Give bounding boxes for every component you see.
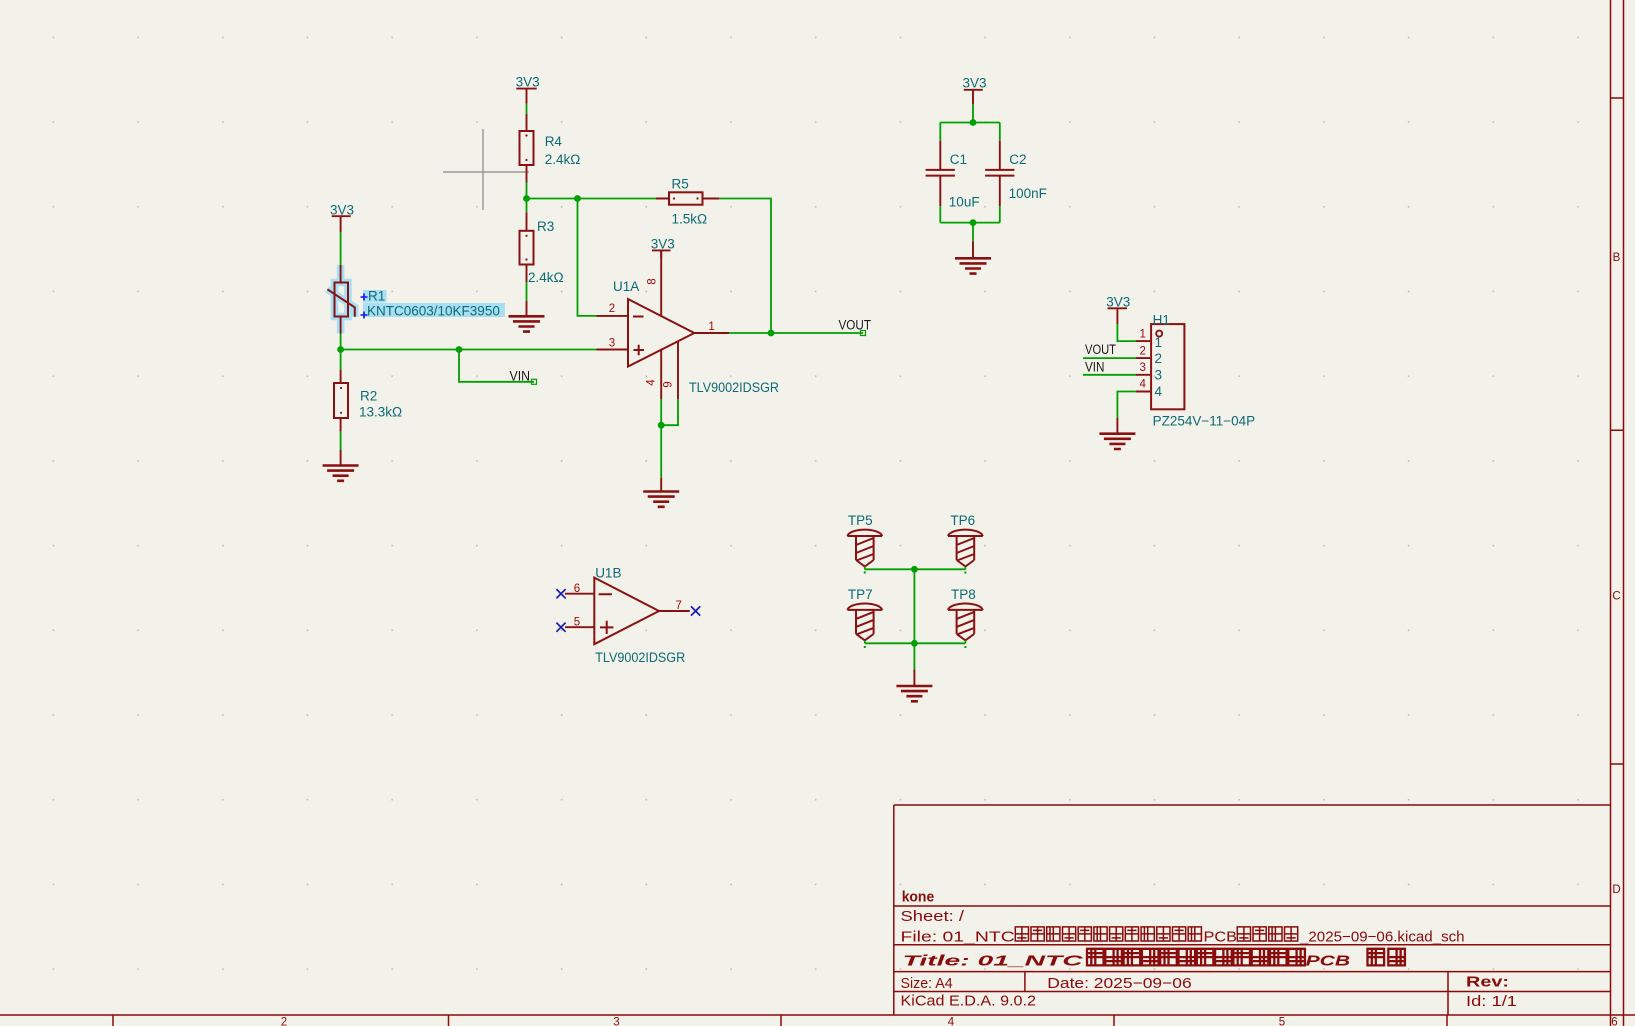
wire noninverting net: [341, 349, 597, 351]
svg-text:6: 6: [1611, 1017, 1617, 1026]
ground (below TP): [896, 669, 932, 701]
svg-text:9: 9: [663, 381, 675, 387]
svg-text:5: 5: [574, 617, 580, 629]
svg-text:13.3kΩ: 13.3kΩ: [359, 404, 402, 419]
svg-text:7: 7: [675, 600, 681, 612]
svg-text:_2025−09−06.kicad_sch: _2025−09−06.kicad_sch: [1299, 929, 1465, 946]
svg-text:3V3: 3V3: [651, 236, 675, 251]
thermistor R1 (selected, highlighted): [327, 265, 505, 334]
svg-text:R2: R2: [360, 388, 377, 403]
svg-text:C1: C1: [950, 152, 967, 167]
svg-text:3V3: 3V3: [516, 75, 540, 90]
svg-text:KNTC0603/10KF3950: KNTC0603/10KF3950: [367, 303, 500, 318]
svg-text:U1B: U1B: [595, 565, 621, 580]
svg-text:PCB: PCB: [1306, 953, 1351, 970]
wire R5 to output node: [719, 199, 771, 334]
capacitor C2: [985, 123, 1047, 207]
svg-text:Id: 1/1: Id: 1/1: [1466, 993, 1517, 1010]
junction: [523, 195, 530, 202]
svg-text:TP8: TP8: [951, 587, 976, 602]
sheet border right: [1611, 0, 1624, 1026]
wire TP bottom rail: [865, 642, 966, 644]
power 3V3 (above R4): [516, 75, 540, 104]
connector H1: [1136, 312, 1255, 428]
svg-text:TP6: TP6: [950, 513, 975, 528]
svg-text:TP7: TP7: [848, 587, 873, 602]
resistor R4: [520, 114, 581, 183]
title field cjk glyphs run 2: [1368, 949, 1405, 966]
wire inverting feedback: [578, 199, 597, 316]
svg-text:1.5kΩ: 1.5kΩ: [672, 211, 708, 226]
wire VOUT to H1 pin 2: [1083, 357, 1136, 359]
resistor R2: [334, 370, 402, 432]
svg-text:VOUT: VOUT: [839, 318, 872, 333]
wire TP rail to ground: [913, 643, 915, 669]
wire 3V3 to H1 pin 1: [1117, 324, 1136, 341]
junction: [658, 422, 665, 429]
wire 3V3 to R4: [526, 104, 528, 114]
wire R2 to ground: [340, 432, 342, 450]
svg-text:3V3: 3V3: [330, 202, 354, 217]
svg-text:100nF: 100nF: [1009, 186, 1047, 201]
wire TP rail vertical: [913, 569, 915, 643]
op-amp U1B: [565, 565, 690, 665]
wire R3 to ground: [526, 282, 528, 301]
svg-text:VOUT: VOUT: [1085, 342, 1116, 357]
svg-text:2: 2: [1155, 351, 1163, 366]
svg-text:PCB: PCB: [1204, 929, 1238, 946]
test point TP6: [948, 513, 983, 569]
junction: [768, 330, 775, 337]
sheet border bottom: [0, 1015, 1635, 1026]
svg-text:Date: 2025−09−06: Date: 2025−09−06: [1047, 975, 1191, 992]
svg-text:kone: kone: [902, 889, 935, 906]
ground (below U1A): [643, 478, 679, 507]
svg-text:B: B: [1613, 252, 1621, 264]
svg-text:2.4kΩ: 2.4kΩ: [545, 152, 581, 167]
ground (below caps): [955, 241, 991, 273]
svg-text:2: 2: [609, 303, 615, 315]
label VOUT (H1): [1085, 342, 1116, 357]
svg-text:3: 3: [613, 1017, 619, 1026]
svg-text:C: C: [1612, 591, 1620, 603]
title block frame: [894, 805, 1611, 1015]
junction: [970, 219, 977, 226]
svg-text:Title: 01_NTC: Title: 01_NTC: [903, 953, 1085, 970]
svg-text:C2: C2: [1009, 152, 1026, 167]
test point TP7: [847, 587, 882, 643]
no-connect X (U1B pin 5): [556, 623, 565, 632]
junction: [574, 195, 581, 202]
svg-text:2: 2: [1139, 345, 1145, 357]
svg-text:File: 01_NTC: File: 01_NTC: [901, 929, 1015, 946]
svg-text:KiCad E.D.A. 9.0.2: KiCad E.D.A. 9.0.2: [901, 993, 1037, 1010]
svg-text:TP5: TP5: [848, 513, 873, 528]
svg-text:R5: R5: [672, 177, 689, 192]
svg-text:2.4kΩ: 2.4kΩ: [528, 270, 564, 285]
svg-text:4: 4: [1155, 384, 1163, 399]
wire VIN to H1 pin 3: [1083, 374, 1136, 376]
ground (below R3): [509, 301, 545, 332]
svg-text:2: 2: [281, 1017, 287, 1026]
svg-text:R1: R1: [368, 289, 385, 304]
svg-text:4: 4: [1139, 379, 1146, 391]
power 3V3 (above C1 C2): [963, 75, 987, 104]
test point TP8: [948, 587, 983, 643]
svg-text:3: 3: [609, 338, 615, 350]
wire R4 to junction: [526, 183, 528, 213]
svg-text:Rev:: Rev:: [1466, 974, 1509, 991]
svg-text:4: 4: [646, 379, 658, 386]
wire 3V3 to R1: [340, 232, 342, 265]
wire 3V3 to cap rail: [972, 104, 974, 123]
svg-text:R3: R3: [537, 219, 554, 234]
svg-text:1: 1: [1155, 335, 1163, 350]
svg-text:R4: R4: [545, 134, 563, 149]
svg-text:TLV9002IDSGR: TLV9002IDSGR: [595, 650, 685, 665]
svg-text:U1A: U1A: [613, 279, 639, 294]
ground (below H1): [1099, 418, 1135, 449]
wire to VIN label: [459, 350, 534, 382]
wire junction row to R5: [527, 198, 657, 200]
wire output to VOUT label: [729, 332, 863, 334]
cursor crosshair: [443, 129, 529, 210]
resistor R3: [520, 212, 564, 285]
junction: [456, 346, 463, 353]
title field cjk glyphs run 1: [1087, 949, 1305, 966]
svg-text:4: 4: [948, 1017, 955, 1026]
svg-text:3: 3: [1155, 368, 1163, 383]
pin end marks: [864, 572, 967, 649]
svg-text:Size: A4: Size: A4: [901, 975, 953, 992]
capacitor C1: [926, 123, 980, 210]
power 3V3 (above U1A pin 8): [651, 236, 675, 258]
wire H1 pin 4 to ground: [1117, 392, 1136, 419]
svg-text:Sheet: /: Sheet: /: [901, 908, 966, 925]
junction: [970, 119, 977, 126]
wire U1A power pins to ground: [661, 399, 678, 478]
label VIN: [510, 368, 537, 384]
op-amp U1A: [597, 250, 780, 399]
wire junction to R2: [340, 350, 342, 370]
wire cap top rail: [940, 122, 1000, 124]
label VOUT: [839, 318, 872, 336]
junction: [911, 640, 918, 647]
svg-text:VIN: VIN: [1085, 360, 1105, 375]
power 3V3 (above H1): [1106, 295, 1130, 324]
no-connect X (U1B pin 6): [556, 589, 565, 598]
test point TP5: [847, 513, 882, 569]
svg-text:3: 3: [1139, 362, 1145, 374]
svg-text:H1: H1: [1153, 312, 1170, 327]
svg-text:3V3: 3V3: [963, 75, 987, 90]
sheet column numbers: [281, 1017, 1618, 1026]
svg-text:6: 6: [574, 583, 580, 595]
wire cap bottom rail: [940, 206, 1000, 222]
no-connect X (U1B pin 7): [691, 606, 700, 615]
svg-text:D: D: [1612, 884, 1620, 896]
file field cjk glyphs run 1: [1015, 927, 1201, 941]
junction: [337, 346, 344, 353]
wire TP top rail: [865, 568, 966, 570]
svg-text:VIN: VIN: [510, 368, 531, 383]
svg-text:TLV9002IDSGR: TLV9002IDSGR: [689, 380, 779, 395]
ground (below R2): [323, 450, 359, 481]
svg-text:10uF: 10uF: [949, 194, 980, 209]
wire rail to ground: [972, 223, 974, 242]
label VIN (H1): [1085, 360, 1105, 375]
power 3V3 (left, above R1): [330, 202, 354, 232]
file field cjk glyphs run 2: [1237, 927, 1297, 941]
svg-text:1: 1: [1139, 328, 1145, 340]
svg-text:1: 1: [708, 321, 714, 333]
sheet row letters: [1612, 252, 1620, 896]
junction: [911, 566, 918, 573]
svg-text:5: 5: [1279, 1017, 1285, 1026]
svg-text:PZ254V−11−04P: PZ254V−11−04P: [1153, 413, 1256, 428]
resistor R5: [656, 177, 719, 227]
svg-text:8: 8: [647, 278, 659, 284]
wire R1 to junction: [340, 334, 342, 350]
